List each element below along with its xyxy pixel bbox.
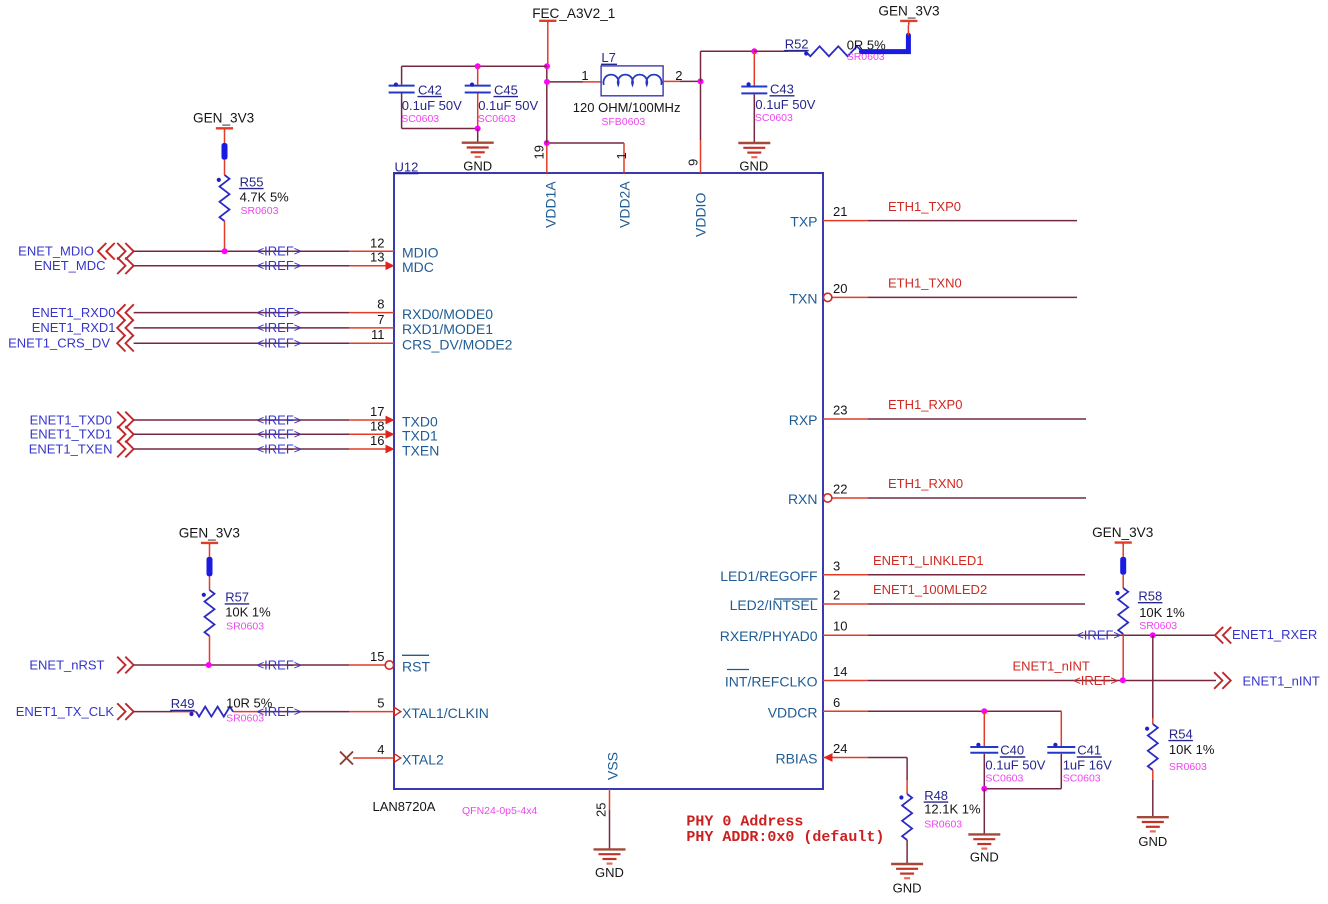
pin name RXD1/MODE1 — [402, 321, 493, 337]
svg-text:SR0603: SR0603 — [241, 205, 279, 217]
junction C40 bottom — [981, 786, 987, 792]
pin name RST — [402, 655, 430, 674]
R55 reference label — [239, 174, 263, 189]
svg-text:RXD1/MODE1: RXD1/MODE1 — [402, 321, 493, 337]
svg-text:ENET_MDC: ENET_MDC — [34, 258, 106, 273]
svg-text:SR0603: SR0603 — [1139, 620, 1177, 632]
wire top rail to capacitors — [402, 65, 547, 67]
junction R57 on nRST — [206, 662, 212, 668]
svg-text:SFB0603: SFB0603 — [601, 116, 645, 128]
net label IREF on ENET1_TXD0 — [257, 412, 302, 427]
pin name CRS_DV/MODE2 — [402, 337, 513, 353]
capacitor C41 — [1047, 743, 1075, 789]
svg-text:23: 23 — [833, 403, 847, 418]
port ENET1_CRS_DV — [8, 335, 134, 352]
capacitor C40 — [970, 711, 998, 788]
svg-text:GEN_3V3: GEN_3V3 — [179, 525, 240, 540]
svg-text:TXN: TXN — [790, 290, 818, 306]
pin name TXD0 — [402, 413, 438, 429]
L7 pin number 2 — [675, 68, 682, 83]
inversion bubble at pin 15 RST — [385, 661, 393, 669]
resistor R49 zigzag — [189, 707, 233, 717]
wire L7 branch — [547, 81, 601, 83]
svg-text:SC0603: SC0603 — [755, 112, 793, 124]
svg-text:XTAL2: XTAL2 — [402, 751, 444, 767]
port ENET1_RXD1 — [32, 320, 134, 337]
port ENET1_TX_CLK — [16, 703, 134, 720]
svg-text:RXP: RXP — [789, 412, 818, 428]
U12 footprint QFN24-0p5-4x4 — [462, 805, 537, 817]
svg-text:13: 13 — [370, 250, 384, 265]
svg-text:0.1uF 50V: 0.1uF 50V — [755, 97, 815, 112]
svg-text:2: 2 — [833, 588, 840, 603]
pin name VDDCR — [768, 704, 818, 720]
svg-text:<IREF>: <IREF> — [257, 305, 302, 320]
net label IREF on ENET_nRST — [257, 657, 302, 672]
pin number 1 — [614, 152, 629, 159]
svg-text:R57: R57 — [225, 590, 249, 605]
svg-text:5: 5 — [377, 696, 384, 711]
net label ENET1_LINKLED1 — [873, 553, 984, 568]
svg-text:L7: L7 — [601, 50, 615, 65]
C42 footprint SC0603 — [401, 113, 439, 125]
svg-text:SC0603: SC0603 — [478, 113, 516, 125]
junction VDDCR C40 — [981, 708, 987, 714]
svg-text:GND: GND — [970, 850, 999, 865]
R52 footprint SR0603 — [847, 51, 885, 63]
pin number 9 — [686, 159, 701, 166]
net label IREF on ENET1_TXEN — [257, 441, 302, 456]
pin number 2 — [833, 588, 840, 603]
wire bottom rail C40-C41 — [984, 788, 1061, 790]
svg-text:<IREF>: <IREF> — [1076, 628, 1121, 643]
svg-text:C45: C45 — [494, 82, 518, 97]
svg-text:TXP: TXP — [790, 214, 817, 230]
svg-text:ETH1_RXP0: ETH1_RXP0 — [888, 397, 962, 412]
R52 value 0R 5% — [847, 38, 886, 53]
svg-text:PHY ADDR:0x0 (default): PHY ADDR:0x0 (default) — [686, 829, 884, 846]
C45 footprint SC0603 — [478, 113, 516, 125]
L7 value 120 OHM/100MHz — [573, 100, 681, 115]
svg-text:10K 1%: 10K 1% — [1169, 742, 1215, 757]
svg-text:RST: RST — [402, 658, 430, 674]
wire C43 rail to R52 — [754, 50, 805, 52]
svg-text:GEN_3V3: GEN_3V3 — [193, 111, 254, 126]
power flag GEN_3V3 mid left — [179, 525, 240, 547]
power flag GEN_3V3 left — [193, 111, 254, 133]
net label IREF on ENET1_RXD0 — [257, 305, 302, 320]
wire ENET_nRST to pin 15 RST — [134, 664, 385, 666]
svg-text:LAN8720A: LAN8720A — [373, 799, 436, 814]
svg-text:ENET1_RXD1: ENET1_RXD1 — [32, 320, 116, 335]
pin name TXP — [790, 214, 817, 230]
wire VDDCR corner to C41 — [1060, 711, 1062, 746]
svg-text:<IREF>: <IREF> — [257, 336, 302, 351]
pin name TXD1 — [402, 428, 438, 444]
svg-text:VDDCR: VDDCR — [768, 704, 818, 720]
junction FEC rail top — [544, 63, 550, 69]
pin number 5 — [377, 696, 384, 711]
pin number 13 — [370, 250, 384, 265]
svg-text:SC0603: SC0603 — [985, 773, 1023, 785]
pin name TXEN — [402, 442, 439, 458]
R54 reference label — [1168, 726, 1193, 741]
svg-text:GND: GND — [739, 159, 768, 174]
svg-text:ENET1_LINKLED1: ENET1_LINKLED1 — [873, 553, 984, 568]
wire R58 bottom crossing RXER to nINT — [1122, 634, 1124, 680]
GND label below C40 — [970, 850, 999, 865]
pin number 22 — [833, 482, 847, 497]
svg-text:ENET_MDIO: ENET_MDIO — [18, 244, 94, 259]
output arrow at pin 24 RBIAS — [824, 753, 833, 762]
pin number 12 — [370, 235, 384, 250]
svg-text:RBIAS: RBIAS — [775, 751, 817, 767]
pin number 3 — [833, 558, 840, 573]
svg-text:SR0603: SR0603 — [924, 819, 962, 831]
wire pin 23 RXP net — [823, 418, 1086, 420]
pin name LED1/REGOFF — [720, 568, 817, 584]
resistor R48 — [899, 794, 912, 864]
pin number 4 — [377, 742, 384, 757]
svg-text:ENET1_100MLED2: ENET1_100MLED2 — [873, 582, 987, 597]
pin number 11 — [371, 327, 385, 342]
inversion bubble at pin 22 RXN — [824, 494, 832, 502]
svg-text:<IREF>: <IREF> — [257, 441, 302, 456]
wire ENET1_RXD0 to pin 8 RXD0/MODE0 — [134, 312, 394, 314]
R58 footprint SR0603 — [1139, 620, 1177, 632]
svg-text:9: 9 — [686, 159, 701, 166]
svg-text:GND: GND — [1138, 834, 1167, 849]
svg-text:25: 25 — [594, 803, 609, 817]
pin name VDDIO — [693, 193, 709, 237]
IREF label on nINT — [1073, 673, 1118, 688]
wire stub pin 4 XTAL2 — [353, 757, 394, 759]
svg-text:<IREF>: <IREF> — [1073, 673, 1118, 688]
C43 reference label — [770, 82, 795, 97]
wire pin 14 INT/REFCLKO net — [823, 680, 1216, 682]
L7 reference label — [601, 50, 617, 65]
svg-text:21: 21 — [833, 204, 847, 219]
open arrow at pin 4 XTAL2 — [394, 754, 401, 762]
input arrow at pin 13 MDC — [386, 261, 395, 270]
pin name MDC — [402, 259, 434, 275]
svg-text:16: 16 — [370, 433, 384, 448]
wire bottom rail C42-C45 — [402, 128, 478, 130]
svg-text:22: 22 — [833, 482, 847, 497]
junction C45 bottom — [475, 126, 481, 132]
svg-text:24: 24 — [833, 741, 847, 756]
svg-text:SR0603: SR0603 — [226, 713, 264, 725]
svg-text:GND: GND — [463, 159, 492, 174]
C40 value 0.1uF 50V — [985, 758, 1045, 773]
svg-text:TXD1: TXD1 — [402, 428, 438, 444]
L7 pin number 1 — [581, 68, 588, 83]
svg-text:ENET1_CRS_DV: ENET1_CRS_DV — [8, 336, 110, 351]
net label IREF on ENET_MDIO — [257, 244, 302, 259]
resistor R57 — [202, 576, 215, 665]
svg-text:RXN: RXN — [788, 491, 818, 507]
net label IREF on ENET1_TXD1 — [257, 427, 302, 442]
pin number 23 — [833, 403, 847, 418]
svg-text:120 OHM/100MHz: 120 OHM/100MHz — [573, 100, 681, 115]
pin name RXP — [789, 412, 818, 428]
C41 reference label — [1077, 743, 1102, 758]
svg-text:ETH1_TXP0: ETH1_TXP0 — [888, 199, 961, 214]
net label ETH1_RXP0 — [888, 397, 962, 412]
U12 part name LAN8720A — [373, 799, 436, 814]
wire FEC_A3V2_1 down — [547, 25, 548, 143]
U12 reference designator — [395, 159, 419, 174]
pin number 16 — [370, 433, 384, 448]
pin 9 VDDIO wire — [700, 81, 702, 173]
svg-text:R58: R58 — [1138, 588, 1162, 603]
R54 value 10K 1% — [1169, 742, 1215, 757]
net label ETH1_RXN0 — [888, 476, 963, 491]
svg-text:GEN_3V3: GEN_3V3 — [1092, 525, 1153, 540]
power flag GEN_3V3 right — [1092, 525, 1153, 547]
port ENET1_RXER — [1215, 627, 1317, 644]
R52 reference label — [784, 36, 809, 51]
svg-text:6: 6 — [833, 695, 840, 710]
pin 19 VDD1A wire — [546, 143, 548, 173]
power flag FEC_A3V2_1 — [532, 6, 615, 25]
svg-text:R49: R49 — [171, 696, 195, 711]
svg-text:15: 15 — [370, 649, 384, 664]
wire ENET1_RXD1 to pin 7 RXD1/MODE1 — [134, 327, 394, 329]
net label IREF on ENET1_TX_CLK — [257, 704, 302, 719]
net label ENET1_100MLED2 — [873, 582, 987, 597]
svg-text:ENET1_TXD0: ENET1_TXD0 — [30, 412, 112, 427]
GND label below C42 C45 — [463, 159, 492, 174]
svg-text:ETH1_RXN0: ETH1_RXN0 — [888, 476, 963, 491]
net label ETH1_TXN0 — [888, 276, 962, 291]
wire ENET1_TXEN to pin 16 TXEN — [134, 448, 386, 450]
net label ETH1_TXP0 — [888, 199, 961, 214]
port ENET_MDIO — [18, 243, 133, 260]
svg-text:<IREF>: <IREF> — [257, 657, 302, 672]
L7 footprint SFB0603 — [601, 116, 645, 128]
pin number 25 — [594, 803, 609, 817]
pin number 17 — [370, 404, 384, 419]
svg-text:R52: R52 — [785, 36, 809, 51]
thick wire below GEN_3V3 mid left — [207, 547, 213, 576]
wire L7 pin2 to VDDIO node — [663, 80, 700, 82]
pin number 10 — [833, 619, 847, 634]
svg-text:QFN24-0p5-4x4: QFN24-0p5-4x4 — [462, 805, 537, 817]
svg-text:MDC: MDC — [402, 259, 434, 275]
wire pin 3 LED1/REGOFF net — [823, 574, 1085, 576]
ground below R54 — [1137, 817, 1169, 831]
R55 footprint SR0603 — [241, 205, 279, 217]
svg-text:19: 19 — [532, 145, 547, 159]
svg-text:20: 20 — [833, 281, 847, 296]
R57 footprint SR0603 — [226, 621, 264, 633]
R54 footprint SR0603 — [1169, 761, 1207, 773]
R49 footprint SR0603 — [226, 713, 264, 725]
input arrow at pin 16 TXEN — [386, 445, 395, 454]
svg-text:PHY 0 Address: PHY 0 Address — [686, 813, 803, 830]
no-connect X on XTAL2 — [340, 752, 353, 765]
R48 footprint SR0603 — [924, 819, 962, 831]
pin number 19 — [532, 145, 547, 159]
port ENET1_nINT — [1214, 672, 1320, 689]
svg-text:R54: R54 — [1169, 726, 1193, 741]
net label ENET1_nINT on wire — [1013, 659, 1090, 674]
R58 reference label — [1138, 588, 1163, 603]
GND label below R54 — [1138, 834, 1167, 849]
GND label below VSS — [595, 865, 624, 880]
svg-text:XTAL1/CLKIN: XTAL1/CLKIN — [402, 705, 489, 721]
port ENET1_RXD0 — [32, 304, 134, 321]
C42 value 0.1uF 50V — [402, 98, 462, 113]
svg-text:FEC_A3V2_1: FEC_A3V2_1 — [532, 6, 615, 21]
pin name XTAL1/CLKIN — [402, 705, 489, 721]
wire ENET1_TXD1 to pin 18 TXD1 — [134, 433, 386, 435]
svg-text:17: 17 — [370, 404, 384, 419]
port ENET_nRST — [29, 657, 133, 674]
svg-text:VDDIO: VDDIO — [693, 193, 709, 237]
pin 25 VSS wire — [609, 789, 611, 849]
ground below VSS — [594, 849, 626, 863]
C41 footprint SC0603 — [1063, 773, 1101, 785]
pin number 14 — [833, 664, 847, 679]
svg-text:<IREF>: <IREF> — [257, 427, 302, 442]
svg-text:ENET1_RXD0: ENET1_RXD0 — [32, 305, 116, 320]
R55 value 4.7K 5% — [240, 189, 290, 204]
svg-text:10K 1%: 10K 1% — [225, 605, 271, 620]
pin name RBIAS — [775, 751, 817, 767]
svg-text:4: 4 — [377, 742, 384, 757]
port ENET1_TXD0 — [30, 412, 134, 429]
svg-text:C42: C42 — [418, 82, 442, 97]
wire ENET1_TX_CLK to pin 5 XTAL1/CLKIN — [134, 711, 394, 713]
power flag GEN_3V3 top right — [878, 3, 939, 25]
svg-text:C41: C41 — [1077, 743, 1101, 758]
svg-text:10K 1%: 10K 1% — [1139, 605, 1185, 620]
svg-text:SR0603: SR0603 — [1169, 761, 1207, 773]
svg-text:C43: C43 — [770, 82, 794, 97]
wire ENET1_TXD0 to pin 17 TXD0 — [134, 419, 386, 421]
svg-text:INT/REFCLKO: INT/REFCLKO — [725, 674, 818, 690]
svg-text:TXEN: TXEN — [402, 442, 439, 458]
svg-text:GND: GND — [595, 865, 624, 880]
pin name TXN — [790, 290, 818, 306]
pin name MDIO — [402, 245, 439, 261]
svg-text:SC0603: SC0603 — [1063, 773, 1101, 785]
wire ENET_MDIO to pin 12 MDIO — [134, 250, 394, 252]
pin name VDD2A — [617, 181, 633, 228]
svg-text:<IREF>: <IREF> — [257, 412, 302, 427]
pin number 18 — [370, 418, 384, 433]
svg-text:1: 1 — [581, 68, 588, 83]
pin name LED2/INTSEL — [730, 597, 818, 613]
note PHY address text — [686, 813, 884, 846]
wire VDDIO node up to C43 rail — [701, 51, 755, 81]
pin number 7 — [377, 312, 384, 327]
C43 footprint SC0603 — [755, 112, 793, 124]
pin name VSS — [605, 752, 621, 780]
junction at VDD2A branch — [544, 140, 550, 146]
resistor R52 — [804, 46, 861, 56]
ground below R48 — [891, 864, 923, 878]
IC U12 LAN8720A body — [394, 173, 823, 789]
svg-text:VDD2A: VDD2A — [617, 181, 633, 228]
svg-text:0.1uF 50V: 0.1uF 50V — [402, 98, 462, 113]
pin number 15 — [370, 649, 384, 664]
C45 value 0.1uF 50V — [478, 98, 538, 113]
thick wire below GEN_3V3 left — [222, 132, 228, 159]
pin name INT/REFCLKO — [725, 670, 818, 690]
svg-text:10: 10 — [833, 619, 847, 634]
svg-text:GEN_3V3: GEN_3V3 — [878, 3, 939, 18]
pin number 6 — [833, 695, 840, 710]
C41 value 1uF 16V — [1063, 758, 1112, 773]
port ENET_MDC — [34, 257, 134, 274]
junction C45 top — [475, 63, 481, 69]
svg-text:ENET1_TXD1: ENET1_TXD1 — [30, 427, 112, 442]
junction R55 on MDIO — [222, 248, 228, 254]
svg-text:LED1/REGOFF: LED1/REGOFF — [720, 568, 817, 584]
svg-text:14: 14 — [833, 664, 847, 679]
pin name RXD0/MODE0 — [402, 306, 493, 322]
wire pin 2 LED2/INTSEL net — [823, 603, 1085, 605]
wire pin 21 TXP net — [823, 220, 1077, 222]
svg-text:RXD0/MODE0: RXD0/MODE0 — [402, 306, 493, 322]
pin name RXER/PHYAD0 — [720, 628, 818, 644]
capacitor C43 — [741, 51, 767, 143]
net label IREF on ENET1_RXD1 — [257, 320, 302, 335]
wire ENET1_CRS_DV to pin 11 CRS_DV/MODE2 — [134, 342, 394, 344]
resistor R58 — [1115, 575, 1128, 634]
wire pin 20 TXN net — [832, 296, 1077, 298]
thick wire below GEN_3V3 right — [1120, 547, 1126, 575]
C45 reference label — [494, 82, 519, 97]
svg-text:12: 12 — [370, 235, 384, 250]
wire pin 10 RXER/PHYAD0 net — [823, 634, 1215, 636]
inductor L7 — [601, 66, 663, 96]
GND label below R48 — [893, 881, 922, 896]
ground below C42 C45 — [462, 143, 494, 157]
IREF label on RXER at right — [1076, 628, 1121, 643]
svg-text:11: 11 — [371, 327, 385, 342]
svg-text:0.1uF 50V: 0.1uF 50V — [478, 98, 538, 113]
GND label below C43 — [739, 159, 768, 174]
svg-text:VSS: VSS — [605, 752, 621, 780]
svg-text:U12: U12 — [395, 159, 419, 174]
svg-text:10R 5%: 10R 5% — [226, 696, 273, 711]
ground below C40 — [968, 834, 1000, 848]
net label IREF on ENET1_CRS_DV — [257, 336, 302, 351]
svg-text:12.1K 1%: 12.1K 1% — [924, 801, 981, 816]
junction R58 on nINT line — [1120, 677, 1126, 683]
R57 value 10K 1% — [225, 605, 271, 620]
svg-text:SC0603: SC0603 — [401, 113, 439, 125]
svg-text:18: 18 — [370, 418, 384, 433]
svg-text:C40: C40 — [1000, 743, 1024, 758]
junction C43 top — [751, 48, 757, 54]
wire ENET_MDC to pin 13 MDC — [134, 265, 386, 267]
svg-text:VDD1A: VDD1A — [543, 181, 559, 228]
svg-text:SR0603: SR0603 — [226, 621, 264, 633]
C43 value 0.1uF 50V — [755, 97, 815, 112]
resistor R55 — [217, 160, 230, 252]
svg-text:ENET1_nINT: ENET1_nINT — [1243, 673, 1320, 688]
capacitor C45 — [465, 66, 491, 128]
R48 reference label — [924, 788, 949, 803]
pin name XTAL2 — [402, 751, 444, 767]
svg-text:<IREF>: <IREF> — [257, 258, 302, 273]
svg-text:R55: R55 — [240, 174, 264, 189]
